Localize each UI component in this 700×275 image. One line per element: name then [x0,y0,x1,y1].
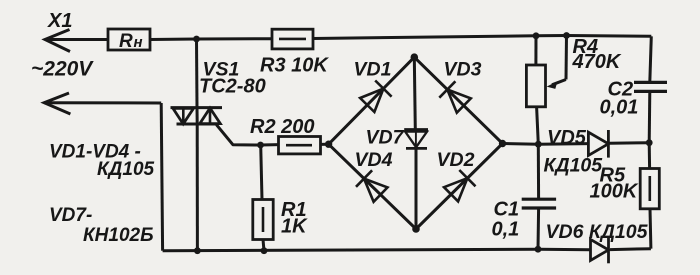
wire bridge edge B-R [416,144,503,230]
svg-text:VD6 КД105: VD6 КД105 [546,221,649,243]
dinistor VD7 cathode bar [406,147,427,150]
connector X1 arrow [45,30,70,52]
svg-text:R2 200: R2 200 [250,116,315,138]
node R4 top junction [533,32,540,39]
triac VS1 left triangle [173,108,194,124]
wire top rail R3 to R4 node [313,36,536,39]
svg-text:VD1: VD1 [354,59,392,81]
wire bottom rail to VD6 [538,248,591,252]
resistor Rн (load) [108,29,150,50]
node A junction [193,36,200,43]
wire bridge edge L-T [329,57,415,144]
wire Rn to node A [150,38,197,42]
svg-text:C1: C1 [494,199,520,221]
wire X1 to Rn [45,38,108,41]
svg-text:VD4: VD4 [355,149,393,171]
wire node to R5 [648,143,651,169]
wire R4 bottom [537,107,539,144]
node R4/C1 junction [535,141,542,148]
wire arrow2 to left rail [44,101,161,104]
svg-text:R: R [119,31,133,52]
potentiometer R4 wiper [565,36,569,80]
svg-text:VD2: VD2 [437,149,475,171]
connector mains arrow 2 [44,93,70,114]
svg-text:КД105: КД105 [544,155,604,177]
resistor R3 [272,29,313,49]
node bridge top [411,53,419,61]
wire left rail down [161,103,162,251]
triac VS1 top bar [171,106,223,109]
wire VD6 to R5 corner [610,247,651,251]
capacitor C2 top plate [634,81,667,84]
wire gate node to R2 [261,143,279,146]
junction C1 bottom [535,246,542,253]
potentiometer R4 body [526,65,545,107]
dinistor VD7 anode bar [404,128,428,131]
svg-text:КД105: КД105 [97,159,155,180]
wire bridge edge T-R [414,57,502,143]
wire top-right corner down to C2 [650,36,652,82]
capacitor C1 bottom plate [522,206,556,209]
wire R2 to bridge left [321,143,329,146]
wire bridge top to VD7 [414,57,415,129]
node R4 wiper junction [563,32,570,39]
node bridge bottom [412,225,420,233]
svg-text:R3 10K: R3 10K [260,55,329,77]
capacitor C1 top plate [522,198,556,201]
wire bridge edge L-B [329,144,416,229]
junction R1 bottom [261,247,268,254]
triac VS1 bottom bar [177,123,217,126]
diode VD6 [591,239,609,260]
svg-text:100K: 100K [590,181,639,203]
dinistor VD7 triangle [405,132,427,148]
svg-text:0,1: 0,1 [492,219,520,241]
diode VD1 [360,89,383,112]
svg-text:470K: 470K [572,51,622,73]
node bridge right [499,140,506,147]
capacitor C2 bottom plate [634,90,667,93]
svg-text:~220V: ~220V [31,58,94,81]
wire top rail R4 node to wiper node [536,34,567,37]
wire triac to bottom rail [196,124,199,251]
node gate junction [257,142,264,149]
svg-text:X1: X1 [47,10,72,32]
wire node to VD5 [538,142,588,146]
diode VD2 [444,178,467,201]
diode VD3 [447,90,471,113]
svg-text:ТС2-80: ТС2-80 [199,76,266,98]
node C2/R5 junction [646,139,653,146]
node bridge left [325,141,332,148]
wire VD5 to C2R5 node [610,141,650,145]
wire C2 to node [648,91,652,142]
resistor R2 [279,137,321,154]
wire triac gate diagonal [217,125,261,145]
resistor R1 [253,200,273,240]
svg-text:н: н [134,34,143,51]
resistor R1 wire top [261,145,262,200]
wire C1 to bottom rail [537,208,541,249]
wire R4 top [534,36,537,65]
wire node to C1 [537,144,540,199]
wire bottom rail [163,249,538,251]
svg-text:1K: 1K [281,216,308,238]
svg-text:0,01: 0,01 [600,97,639,119]
wire R5 to VD6 corner [649,209,653,249]
wire bridge right to R4C1 node [503,142,539,146]
junction triac bottom [194,247,201,254]
wire top rail wiper node to corner [567,34,652,38]
diode VD4 [364,179,388,202]
wire VD7 to bridge bottom [415,148,418,229]
diode VD5 [588,132,608,155]
triac VS1 through wire [196,108,199,124]
svg-text:VD7-: VD7- [49,205,92,226]
svg-text:КН102Б: КН102Б [83,225,154,246]
wire R1 to bottom rail [263,240,264,251]
svg-text:VD5: VD5 [547,127,587,149]
triac VS1 right triangle [200,108,221,124]
resistor R5 [640,169,659,209]
wire top rail A to R3 [197,37,273,40]
svg-text:VD3: VD3 [444,59,482,81]
wire node A down to triac [195,39,199,108]
svg-text:VD7: VD7 [366,127,405,149]
